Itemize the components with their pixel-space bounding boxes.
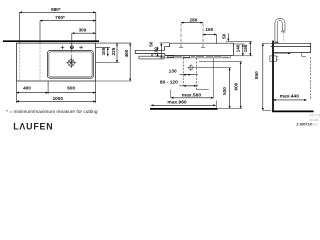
side view wall	[272, 41, 274, 111]
dim max.440	[273, 99, 307, 101]
svg-text:1000: 1000	[53, 96, 64, 101]
dim 460	[129, 43, 131, 81]
alt tap hole right	[79, 46, 83, 50]
svg-text:400: 400	[23, 85, 31, 90]
svg-text:190: 190	[153, 47, 158, 55]
dim max.960	[151, 104, 216, 106]
dim 80-120	[180, 85, 199, 87]
wall bracket side	[270, 56, 276, 61]
wall drain outlet	[189, 66, 193, 70]
bottom extension lines	[16, 82, 95, 104]
svg-text:300: 300	[79, 28, 87, 33]
svg-text:225: 225	[111, 47, 116, 55]
dim 1000 line	[16, 100, 95, 102]
plan cut line 700	[39, 43, 41, 81]
side basin profile	[271, 43, 311, 52]
fixing bracket left	[168, 56, 174, 58]
front view wing slab	[135, 50, 165, 53]
shared right extension	[95, 12, 97, 40]
dim 530	[229, 68, 231, 109]
svg-text:160: 160	[205, 27, 213, 32]
svg-text:50: 50	[222, 33, 227, 39]
svg-text:max.560: max.560	[182, 93, 202, 99]
svg-text:140: 140	[235, 44, 240, 52]
tap centerline B	[202, 24, 204, 48]
bowl outer rim	[48, 51, 94, 79]
left dim 50	[157, 47, 159, 51]
svg-text:195: 195	[243, 44, 248, 52]
drain symbol	[67, 59, 75, 67]
svg-text:50: 50	[148, 41, 153, 47]
floor line center	[150, 108, 218, 110]
dim 850	[262, 43, 264, 110]
svg-text:80 - 120: 80 - 120	[160, 80, 178, 86]
front dashed line	[310, 57, 312, 100]
svg-text:980*: 980*	[51, 7, 61, 12]
dim 600	[240, 62, 242, 109]
drain box	[196, 55, 213, 58]
drain pipe dashed left	[182, 58, 184, 85]
left dim 190	[160, 43, 162, 58]
dim 280	[181, 22, 203, 24]
towel rail	[139, 56, 165, 59]
svg-text:700*: 700*	[55, 15, 65, 20]
bracket dim small	[274, 52, 291, 54]
svg-text:max.960: max.960	[167, 100, 187, 106]
svg-text:105: 105	[101, 47, 106, 55]
svg-text:AKTUE: AKTUE	[309, 113, 320, 117]
right extension lines of plan	[96, 43, 132, 81]
dim 195 right	[249, 41, 251, 56]
front underside strip	[164, 55, 230, 58]
plan cut line 980	[19, 43, 21, 81]
siphon mark	[302, 53, 306, 57]
side view floor	[272, 110, 314, 112]
dim 980*	[19, 11, 95, 13]
plan ceramic outline	[16, 43, 95, 81]
drain pipe dashed right	[196, 58, 198, 90]
drain centerline	[71, 44, 73, 68]
svg-text:600: 600	[234, 82, 239, 90]
rail bracket	[151, 54, 152, 57]
dim max.560	[171, 97, 214, 99]
dim 50 right-top	[227, 34, 229, 42]
dim 105	[107, 47, 109, 56]
dim 400/600 line	[16, 92, 48, 94]
dim 700*	[40, 20, 96, 22]
tap centerline A	[180, 24, 182, 48]
bowl inner rim	[49, 52, 92, 77]
svg-text:max.440: max.440	[280, 93, 300, 99]
svg-text:530: 530	[222, 87, 227, 95]
plan view wall line	[3, 40, 99, 42]
svg-text:460: 460	[124, 49, 129, 57]
tap hole	[70, 46, 73, 49]
overflow detail	[183, 56, 190, 57]
dim 130	[180, 74, 199, 76]
svg-text:130: 130	[169, 69, 177, 74]
svg-text:LΛUFEN: LΛUFEN	[13, 121, 53, 131]
svg-text:* = minimum/maximum measure fo: * = minimum/maximum measure for cutting	[6, 109, 98, 115]
front view body outline	[165, 43, 234, 55]
svg-text:280: 280	[189, 17, 197, 22]
dim 160	[203, 34, 217, 36]
dim 225	[116, 43, 118, 62]
svg-text:850: 850	[254, 71, 259, 79]
dim 140 right	[242, 44, 244, 56]
dim 300	[72, 32, 96, 34]
svg-text:600: 600	[67, 85, 75, 90]
alt tap hole left	[61, 46, 65, 50]
svg-text:Z 890714: Z 890714	[296, 122, 311, 126]
faucet	[275, 18, 286, 43]
